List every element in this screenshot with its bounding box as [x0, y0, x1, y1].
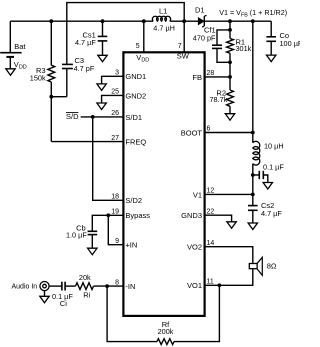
wire: main VDD rail [10, 20, 153, 22]
resistor R1 301k [228, 19, 232, 23]
svg-text:Audio In: Audio In [12, 284, 38, 291]
svg-text:27: 27 [111, 135, 119, 142]
svg-text:12: 12 [207, 187, 215, 194]
battery Bat [9, 21, 11, 53]
wire: VO1 pin 11 to speaker [206, 269, 253, 286]
svg-text:6: 6 [207, 126, 211, 133]
capacitor Cs2 4.7 uF [248, 205, 258, 207]
ground (Co) [267, 55, 276, 62]
diode D1 (Schottky) [198, 18, 204, 25]
wire: VO2 pin 14 to speaker [206, 247, 253, 264]
svg-text:4.7 µH: 4.7 µH [153, 24, 175, 33]
wire: pin 5 VDD stub [142, 19, 146, 23]
wire: top rail from C3 to SW node [67, 3, 184, 65]
capacitor Ci 0.1 uF [49, 285, 62, 287]
ground (GND1) [97, 84, 106, 91]
ground (Cs1) [98, 55, 107, 62]
svg-text:L1: L1 [159, 6, 167, 15]
svg-text:SW: SW [177, 51, 190, 60]
wire: GND3 pin 22 [206, 215, 232, 222]
wire: R3/C3 node to FREQ pin 27 [51, 141, 122, 143]
svg-text:D1: D1 [195, 5, 205, 14]
svg-text:20k: 20k [79, 273, 91, 282]
svg-text:GND2: GND2 [125, 91, 146, 100]
svg-text:14: 14 [207, 240, 215, 247]
svg-text:-IN: -IN [125, 282, 135, 291]
ground (0.1uF) [263, 183, 272, 190]
resistor R3 150k [50, 21, 52, 65]
svg-text:FB: FB [192, 73, 202, 82]
inductor 10 uH [253, 141, 260, 165]
capacitor Co 100 uF [270, 21, 272, 37]
svg-text:GND1: GND1 [125, 72, 146, 81]
wire: GND2 pin 25 [102, 95, 123, 103]
wire: FB pin 28 to R1/R2 node [228, 75, 232, 79]
svg-text:VO1: VO1 [187, 281, 202, 290]
wire: Bypass node to +IN pin 9 [108, 215, 122, 244]
capacitor 0.1 uF (V1 bypass) [251, 173, 255, 177]
svg-text:18: 18 [111, 194, 119, 201]
svg-text:78.7k: 78.7k [209, 95, 227, 104]
ground (GND2) [97, 103, 106, 110]
svg-text:4.7 µF: 4.7 µF [75, 38, 96, 47]
svg-text:FREQ: FREQ [125, 138, 146, 147]
wire: BOOT pin 6 [251, 131, 255, 135]
capacitor Cb 1.0 uF [88, 230, 98, 232]
svg-text:19: 19 [111, 209, 119, 216]
svg-text:Bat: Bat [14, 42, 26, 51]
svg-text:S/D: S/D [66, 112, 79, 121]
op-amp U1 (amplifier IC body) [123, 52, 204, 316]
svg-text:4.7 µF: 4.7 µF [261, 209, 282, 218]
wire: V1 pin 12 [251, 193, 255, 197]
capacitor Cf1 470 pF [217, 30, 230, 45]
wire: GND1 pin 3 [102, 76, 123, 84]
ground (jack) [40, 296, 49, 303]
svg-text:Bypass: Bypass [125, 211, 150, 220]
node V1 rail down right side [251, 19, 255, 23]
svg-text:26: 26 [111, 110, 119, 117]
ground (Cs2) [248, 223, 257, 230]
node SW / pin 7 stub [182, 19, 186, 23]
svg-text:3: 3 [115, 70, 119, 77]
ground (R2) [225, 114, 234, 121]
resistor Ri 20k [65, 285, 75, 287]
node VDD supply arrow [9, 57, 11, 69]
svg-text:0.1 µF: 0.1 µF [263, 163, 284, 172]
svg-text:VDD: VDD [14, 60, 27, 71]
svg-text:100 µF: 100 µF [280, 39, 301, 48]
svg-text:28: 28 [207, 70, 215, 77]
capacitor C3 4.7 pF [62, 63, 73, 65]
svg-text:VO2: VO2 [187, 243, 202, 252]
resistor R2 78.7k [229, 77, 231, 90]
svg-text:Ci: Ci [60, 299, 67, 308]
svg-text:470 pF: 470 pF [193, 34, 216, 43]
svg-text:8Ω: 8Ω [267, 262, 277, 271]
svg-text:10 µH: 10 µH [264, 142, 284, 151]
resistor Rf 200k [157, 339, 174, 345]
svg-text:GND3: GND3 [181, 211, 202, 220]
svg-text:4.7 pF: 4.7 pF [74, 64, 95, 73]
svg-text:V1 = VFB (1 + R1/R2): V1 = VFB (1 + R1/R2) [219, 8, 287, 19]
svg-text:150k: 150k [30, 73, 46, 82]
svg-text:8: 8 [115, 279, 119, 286]
svg-text:S/D1: S/D1 [125, 113, 142, 122]
wire: S/D to S/D2 pin 18 [93, 117, 123, 200]
svg-text:7: 7 [178, 43, 182, 50]
svg-text:301k: 301k [236, 44, 252, 53]
capacitor Cs1 4.7 uF [101, 19, 105, 23]
svg-text:Ri: Ri [83, 290, 90, 299]
svg-text:22: 22 [207, 208, 215, 215]
svg-text:25: 25 [111, 89, 119, 96]
wire: feedback loop [107, 286, 157, 342]
inductor L1 4.7 uH [152, 16, 170, 21]
wire: Bypass pin 19 [92, 215, 122, 231]
svg-text:BOOT: BOOT [181, 128, 203, 137]
svg-text:200k: 200k [158, 327, 174, 336]
svg-text:+IN: +IN [125, 241, 137, 250]
speaker 8 ohm [249, 264, 257, 269]
ground (GND3) [227, 222, 236, 229]
svg-text:1.0 µF: 1.0 µF [66, 231, 87, 240]
svg-text:S/D2: S/D2 [125, 196, 142, 205]
svg-text:V1: V1 [193, 190, 202, 199]
svg-text:11: 11 [207, 278, 214, 285]
ground (Cb) [88, 248, 97, 255]
svg-text:5: 5 [136, 43, 140, 50]
svg-text:9: 9 [115, 238, 119, 245]
